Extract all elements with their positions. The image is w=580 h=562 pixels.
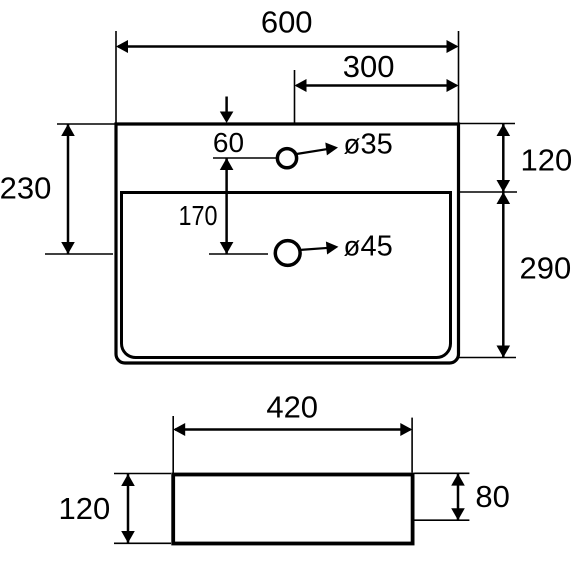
svg-text:290: 290 bbox=[520, 251, 572, 286]
centreline hole 1 bbox=[213, 157, 277, 159]
arrowhead 120 bottom up bbox=[121, 474, 135, 486]
svg-text:45: 45 bbox=[361, 231, 393, 263]
dimension line 80 bbox=[457, 474, 460, 521]
arrowhead 60 down onto top edge bbox=[220, 112, 234, 124]
arrowhead 120 bottom down bbox=[121, 531, 135, 543]
leader arrowhead hole 2 bbox=[326, 242, 339, 255]
hole 2 circle (drain hole) bbox=[275, 241, 300, 266]
arrowhead 600 left bbox=[116, 40, 128, 53]
extension line top for dim 120 right bbox=[459, 123, 516, 125]
extension line bottom for dim 80 bbox=[415, 519, 470, 521]
extension line right for dim 600/300 bbox=[458, 31, 460, 124]
svg-text:230: 230 bbox=[0, 171, 51, 206]
dimension line 420 bbox=[175, 428, 411, 431]
extension line left for dim 600 bbox=[115, 31, 117, 124]
svg-text:ø: ø bbox=[344, 129, 361, 160]
extension line centre for dim 300 bbox=[294, 70, 296, 124]
svg-text:170: 170 bbox=[179, 200, 218, 231]
svg-text:60: 60 bbox=[213, 127, 244, 158]
leader shaft above top edge for dim 60 bbox=[225, 97, 228, 114]
arrowhead 600 right bbox=[447, 40, 459, 53]
leader line hole 1 bbox=[297, 149, 330, 154]
arrowhead 420 left bbox=[173, 423, 185, 436]
dimension line 290 bbox=[502, 192, 505, 358]
arrowhead 230 up bbox=[61, 124, 75, 136]
arrowhead 300 right bbox=[447, 79, 459, 92]
arrowhead 120 up bbox=[497, 124, 511, 136]
arrowhead 300 left bbox=[295, 79, 307, 92]
pedestal rectangle (side view) bbox=[173, 475, 412, 544]
dimension line 600 bbox=[118, 45, 457, 48]
dimension line 120 bottom bbox=[127, 474, 130, 543]
arrowhead 420 right bbox=[400, 423, 412, 436]
svg-text:420: 420 bbox=[266, 390, 318, 425]
arrowhead 120 down bbox=[497, 180, 511, 192]
basin inner rim outline bbox=[122, 193, 451, 358]
dimension line 300 bbox=[297, 84, 457, 87]
arrowhead 290 down bbox=[497, 346, 511, 358]
leader line hole 2 bbox=[299, 248, 329, 250]
svg-text:35: 35 bbox=[361, 129, 393, 161]
svg-text:80: 80 bbox=[475, 479, 509, 514]
dimension line 170 bbox=[225, 158, 228, 254]
extension line top for dim 80 bbox=[415, 472, 470, 474]
arrowhead 170 down bbox=[220, 242, 234, 254]
dimension line 120 right bbox=[502, 124, 505, 192]
extension line bottom for dim 230 bbox=[45, 253, 113, 255]
extension line bottom for dim 120 bottom bbox=[114, 542, 171, 544]
svg-text:600: 600 bbox=[261, 5, 313, 40]
leader arrowhead hole 1 bbox=[325, 143, 338, 156]
extension line middle for dims 120/290 bbox=[459, 191, 517, 193]
basin outer outline (front view) bbox=[116, 124, 459, 363]
svg-text:120: 120 bbox=[521, 143, 573, 178]
arrowhead 230 down bbox=[61, 242, 75, 254]
hole 1 circle (tap hole) bbox=[277, 149, 296, 168]
arrowhead 80 down bbox=[451, 508, 465, 520]
extension line bottom for dim 290 bbox=[459, 357, 516, 359]
extension line top for dim 230 bbox=[57, 123, 116, 125]
arrowhead 80 up bbox=[451, 474, 465, 486]
svg-text:ø: ø bbox=[344, 231, 361, 262]
centreline hole 2 bbox=[209, 253, 268, 255]
extension line right for dim 420 bbox=[411, 418, 413, 473]
svg-text:300: 300 bbox=[343, 49, 395, 84]
arrowhead 290 up bbox=[497, 192, 511, 204]
dimension line 230 bbox=[67, 124, 70, 254]
extension line top for dim 120 bottom bbox=[114, 473, 171, 475]
arrowhead 170 up bbox=[220, 158, 234, 170]
extension line left for dim 420 bbox=[172, 416, 174, 473]
svg-text:120: 120 bbox=[59, 491, 111, 526]
